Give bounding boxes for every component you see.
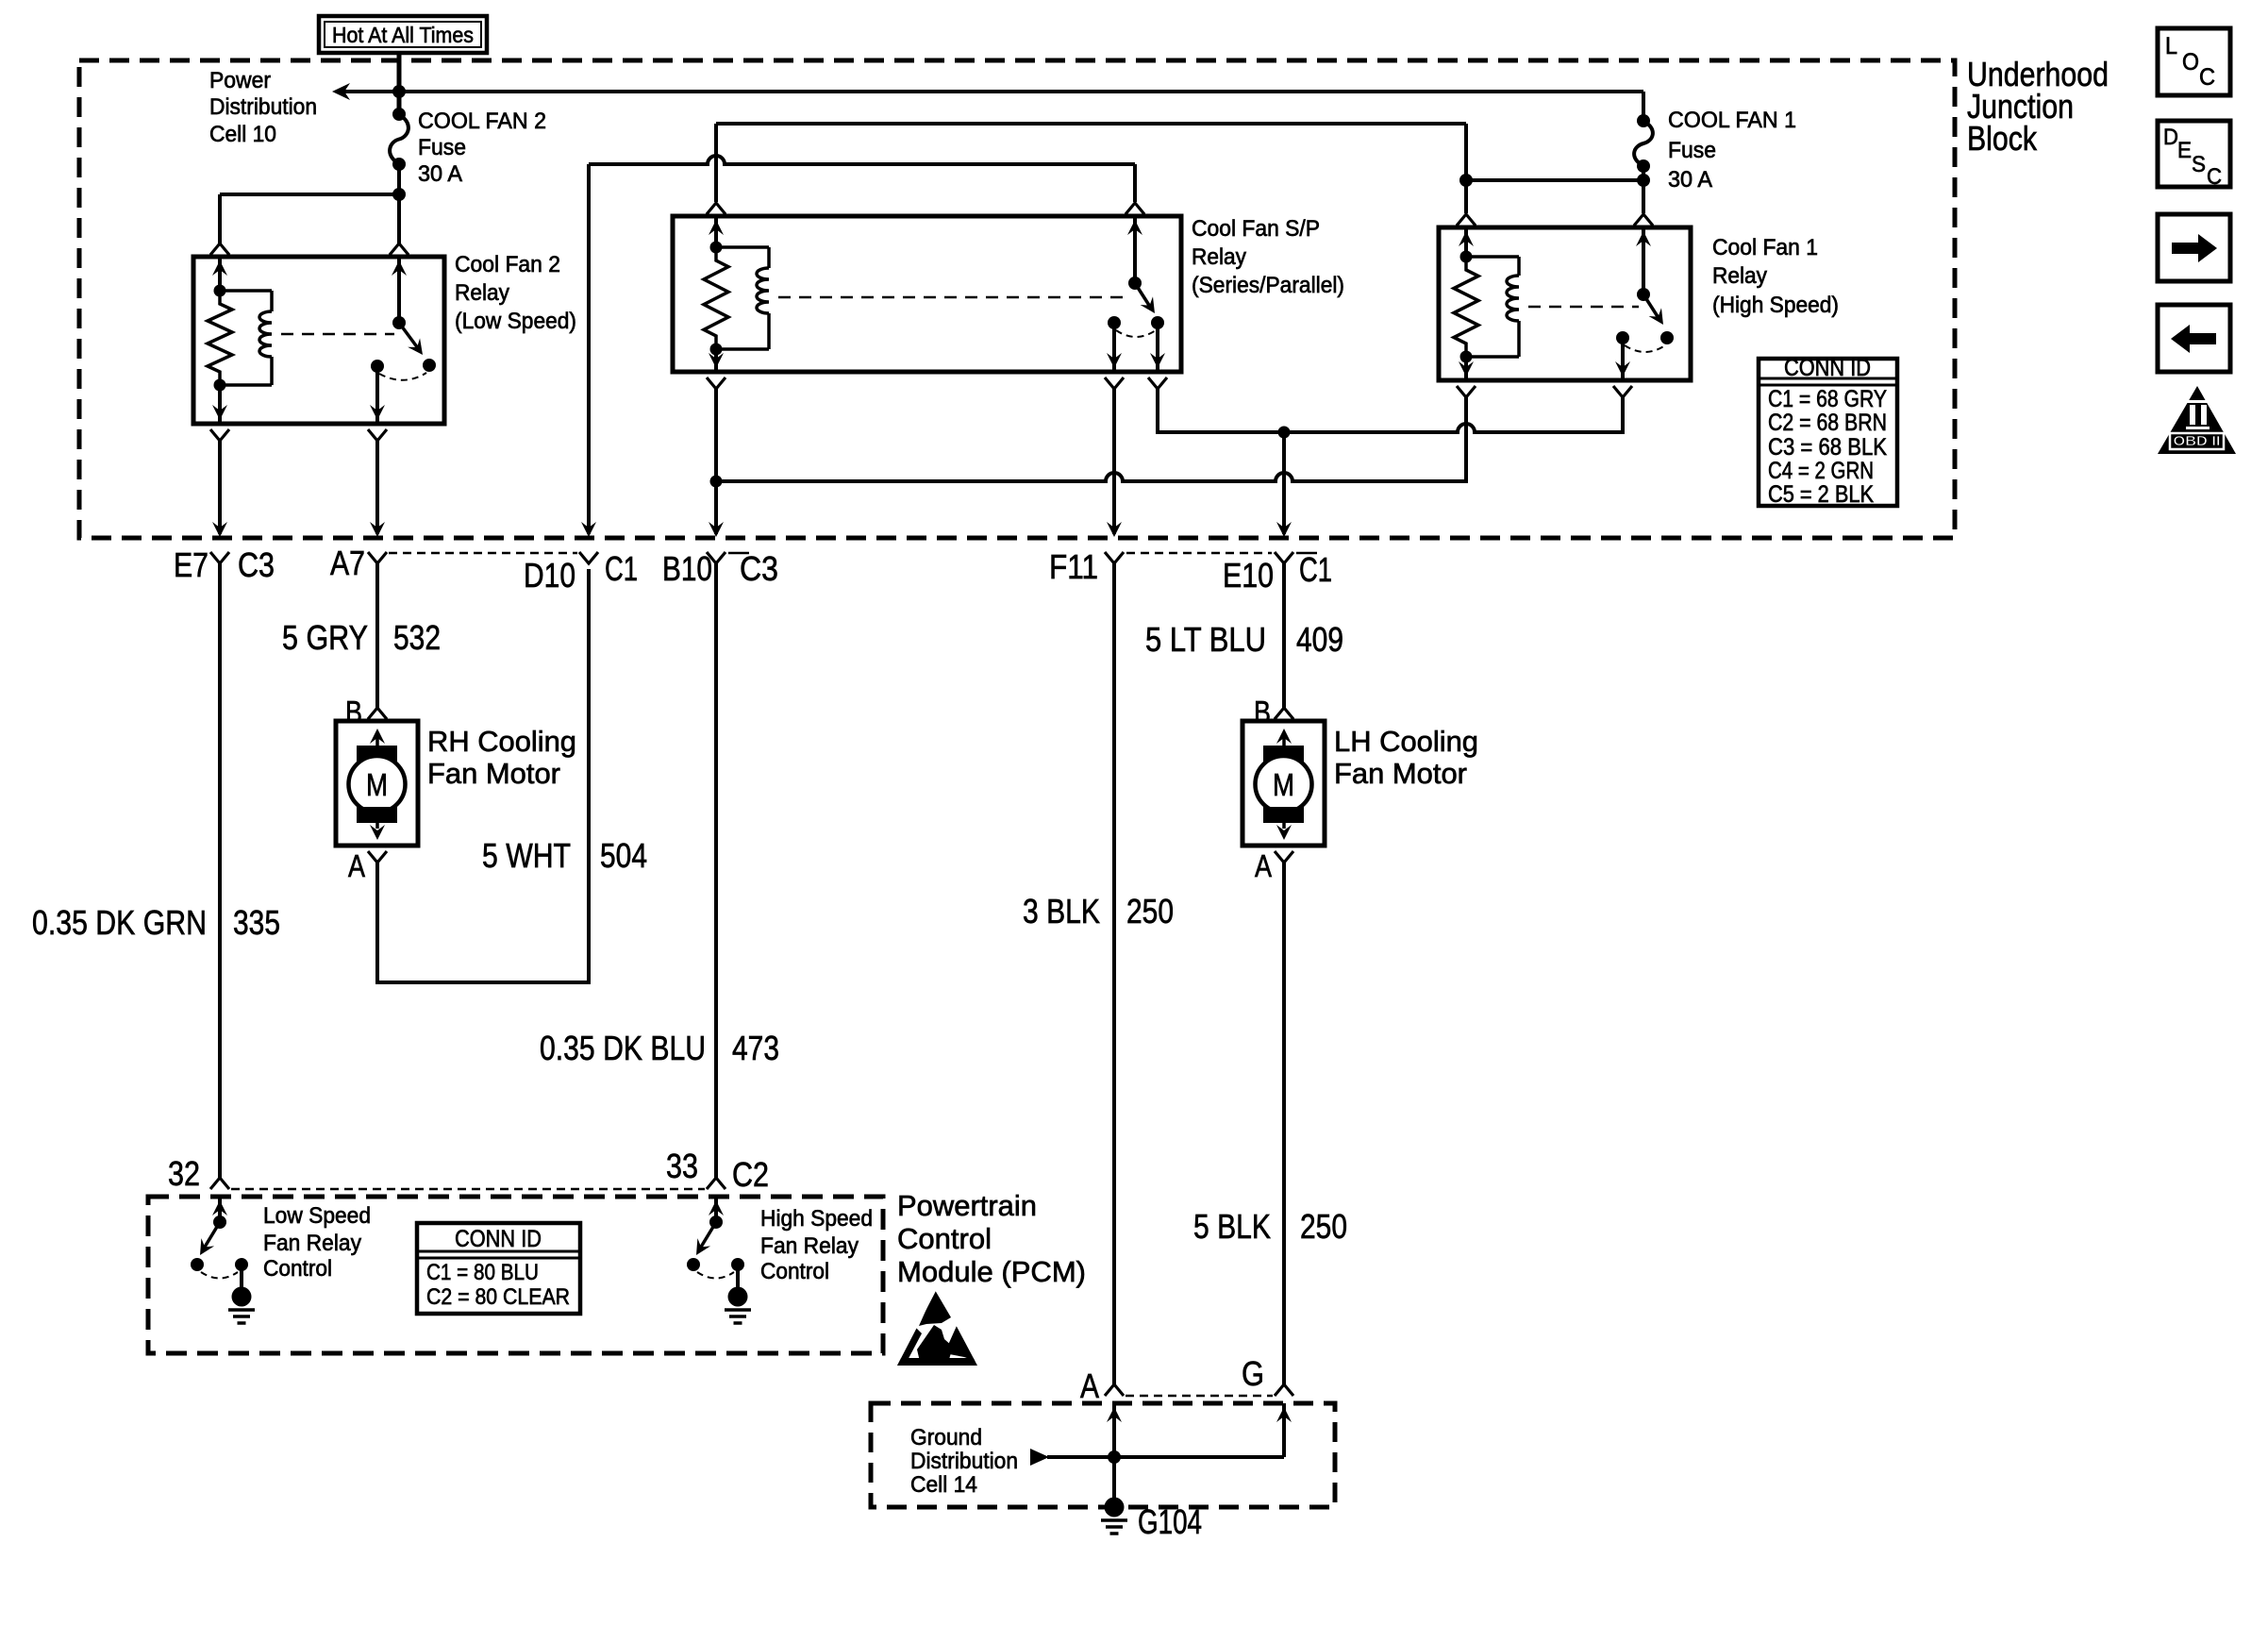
node: K2 arm contact xyxy=(423,359,436,372)
svg-text:F11: F11 xyxy=(1049,547,1098,586)
svg-text:Control: Control xyxy=(897,1222,992,1255)
connector chevron: LH motor A xyxy=(1275,851,1293,863)
wire label: 532 xyxy=(393,618,441,657)
node: ground bus junction xyxy=(1108,1450,1121,1464)
connector chevron: RH motor B xyxy=(368,708,387,719)
node: K3 arm contact xyxy=(1151,316,1164,329)
pin label: E10 xyxy=(1223,556,1274,595)
pin label: A (LH motor) xyxy=(1255,848,1272,883)
dashed arc: high speed contact travel xyxy=(697,1272,734,1279)
pin label: E7 xyxy=(174,545,208,584)
svg-text:Distribution: Distribution xyxy=(209,94,317,120)
svg-text:Low Speed: Low Speed xyxy=(263,1203,371,1229)
connector chevron: PCM pin 33 xyxy=(707,1178,725,1189)
node: fuse 2 output junction xyxy=(392,188,406,201)
connector chevrons below relay K2 xyxy=(210,429,387,441)
wire label: 250 (LH motor leg) xyxy=(1300,1207,1347,1246)
svg-text:CONN ID: CONN ID xyxy=(1784,355,1871,381)
svg-text:250: 250 xyxy=(1126,892,1174,930)
svg-text:335: 335 xyxy=(233,903,280,942)
label: Cool Fan 2 Relay (Low Speed) xyxy=(455,252,576,334)
pin label: B (LH motor) xyxy=(1254,695,1271,729)
label: Low Speed Fan Relay Control xyxy=(263,1203,371,1282)
wire: K2 coil return to E7 xyxy=(212,441,227,537)
ESD sensitive device symbol xyxy=(897,1290,977,1366)
svg-text:A: A xyxy=(348,848,365,883)
dashed arc: low speed contact travel xyxy=(201,1272,238,1279)
pin label: C2 (PCM connector) xyxy=(732,1155,769,1194)
svg-text:Cell 10: Cell 10 xyxy=(209,122,276,147)
pin label: A (ground distribution) xyxy=(1080,1366,1099,1405)
svg-text:5 BLK: 5 BLK xyxy=(1193,1207,1271,1246)
wire: ground pin A to G104 xyxy=(1107,1403,1122,1498)
svg-text:(Series/Parallel): (Series/Parallel) xyxy=(1192,273,1344,298)
label: Cool Fan S/P Relay (Series/Parallel) xyxy=(1192,216,1344,298)
label: G104 xyxy=(1138,1502,1202,1541)
arrow to Power Distribution xyxy=(332,83,350,100)
wire label: 5 BLK xyxy=(1193,1207,1271,1246)
switch: K1 contact arm xyxy=(1637,288,1670,328)
wire: circuit 409 LT BLU (E10 to LH fan motor B) xyxy=(1282,563,1286,708)
fuse: COOL FAN 2 Fuse 30 A xyxy=(390,108,409,171)
svg-text:(High Speed): (High Speed) xyxy=(1712,293,1839,318)
node: CF1 coil feed junction xyxy=(1459,174,1473,187)
wire: D10 riser to S/P relay switch xyxy=(581,156,1135,537)
node: K1 coil top xyxy=(1460,251,1473,263)
wire: power distribution rail xyxy=(343,92,1643,121)
wire: fuse 1 output to CF1 coil / S-P coil feed xyxy=(1466,124,1643,213)
svg-text:E10: E10 xyxy=(1223,556,1274,595)
wire label: 5 LT BLU xyxy=(1145,620,1266,659)
node: fuse 1 output junction xyxy=(1637,174,1650,187)
svg-text:COOL FAN 2: COOL FAN 2 xyxy=(418,109,546,134)
module boundary: Powertrain Control Module xyxy=(148,1197,883,1353)
connector line: PCM 32-33 xyxy=(231,1188,705,1191)
relay K2 coil-side pin (terminal to E7) xyxy=(212,257,227,291)
wire: fuse 1 output xyxy=(1642,166,1645,213)
wire label: 0.35 DK BLU xyxy=(540,1029,706,1067)
wire: circuit 250 BLK (LH motor A to ground G) xyxy=(1282,863,1286,1384)
wire: circuit 335 DK GRN (E7 to PCM pin 32) xyxy=(218,563,222,1178)
svg-text:C3: C3 xyxy=(238,545,275,584)
wire: K3 output contact to box edge (F11 leg) xyxy=(1107,323,1122,372)
svg-text:C1: C1 xyxy=(1299,550,1332,589)
node: K1 output contact xyxy=(1616,331,1629,344)
relay K1 switch input pin xyxy=(1636,227,1651,294)
svg-text:E: E xyxy=(2177,138,2192,163)
wire label: 0.35 DK GRN xyxy=(32,903,207,942)
connector line: F11-E10 xyxy=(1126,552,1272,555)
svg-text:30 A: 30 A xyxy=(1668,167,1712,193)
svg-text:C2 = 80 CLEAR: C2 = 80 CLEAR xyxy=(426,1284,570,1310)
pin label: B10 xyxy=(662,549,712,588)
svg-text:C4 = 2 GRN: C4 = 2 GRN xyxy=(1768,458,1874,484)
arrow: from Ground Distribution cell xyxy=(1030,1449,1049,1466)
node: B10 wire junction with CF1 coil return xyxy=(710,476,723,488)
relay K3 box: Cool Fan S/P Relay xyxy=(673,216,1181,372)
svg-text:Relay: Relay xyxy=(1712,263,1767,289)
connector chevrons below relay K3 xyxy=(707,377,1167,389)
connector chevrons below relay K1 xyxy=(1457,386,1632,397)
wire: ground distribution bus xyxy=(1047,1455,1284,1459)
label: COOL FAN 2 Fuse 30 A xyxy=(418,109,546,187)
svg-text:0.35 DK GRN: 0.35 DK GRN xyxy=(32,903,207,942)
switch: K2 contact arm xyxy=(392,316,428,360)
svg-text:Fan Motor: Fan Motor xyxy=(427,757,560,790)
svg-text:Cell 14: Cell 14 xyxy=(910,1472,977,1498)
wire: circuit 473 DK BLU (B10 to PCM pin 33) xyxy=(714,563,718,1178)
connector line: A-G xyxy=(1126,1395,1273,1398)
svg-text:High Speed: High Speed xyxy=(760,1206,873,1232)
dashed arc: K1 contact travel xyxy=(1625,345,1665,352)
icon: OBD II badge xyxy=(2158,386,2236,454)
label: RH Cooling Fan Motor xyxy=(427,725,576,790)
pin label: 33 xyxy=(666,1147,698,1185)
node: K2 output contact xyxy=(371,360,384,373)
label: COOL FAN 1 Fuse 30 A xyxy=(1668,108,1796,193)
motor M2: LH Cooling Fan Motor xyxy=(1242,721,1325,846)
wire: K3 output to F11 xyxy=(1107,389,1122,537)
svg-text:E7: E7 xyxy=(174,545,208,584)
wire: K2 output to A7 xyxy=(370,441,385,537)
svg-text:C2 = 68 BRN: C2 = 68 BRN xyxy=(1768,410,1887,436)
pin label: C3 (E7 connector) xyxy=(238,545,275,584)
svg-text:S: S xyxy=(2192,152,2206,177)
wire: coil return bus to Cool Fan 1 relay xyxy=(716,397,1466,481)
connector line stub: E10/C1 xyxy=(1296,552,1317,555)
svg-text:Fan Motor: Fan Motor xyxy=(1334,757,1467,790)
svg-text:M: M xyxy=(1273,767,1294,802)
relay K3 coil-side pin xyxy=(709,216,724,247)
label: High Speed Fan Relay Control xyxy=(760,1206,873,1284)
power source tag: Hot At All Times xyxy=(319,16,487,53)
svg-text:C3 = 68 BLK: C3 = 68 BLK xyxy=(1768,434,1887,461)
node: E10 branch junction xyxy=(1278,427,1291,439)
svg-text:Fuse: Fuse xyxy=(418,135,466,160)
svg-text:COOL FAN 1: COOL FAN 1 xyxy=(1668,108,1796,133)
wire label: 5 GRY xyxy=(282,618,368,657)
icon: DESC button xyxy=(2158,121,2230,190)
node: high speed driver contact xyxy=(687,1258,700,1271)
wire label: 5 WHT xyxy=(482,836,571,875)
wire: ground pin G to bus xyxy=(1276,1403,1292,1457)
label: Ground Distribution Cell 14 xyxy=(910,1425,1018,1498)
relay K1 coil-side pin xyxy=(1459,227,1474,257)
wire: K3 arm contact to box edge xyxy=(1150,323,1165,372)
node: K3 coil bottom xyxy=(710,344,723,356)
dashed arc: K3 contact travel xyxy=(1116,330,1156,337)
node: battery feed junction xyxy=(392,85,406,98)
svg-text:3 BLK: 3 BLK xyxy=(1023,892,1100,930)
wire label: 409 xyxy=(1296,620,1343,659)
svg-text:5 LT BLU: 5 LT BLU xyxy=(1145,620,1266,659)
wire label: 250 (F11 leg) xyxy=(1126,892,1174,930)
svg-text:D: D xyxy=(2163,125,2178,150)
svg-text:473: 473 xyxy=(732,1029,779,1067)
node: K2 coil top xyxy=(214,285,226,297)
switch: Low Speed Fan Relay Control driver xyxy=(193,1197,227,1259)
label: Powertrain Control Module (PCM) xyxy=(897,1189,1086,1288)
wire label: 504 xyxy=(600,836,647,875)
svg-text:Distribution: Distribution xyxy=(910,1449,1018,1474)
svg-text:RH Cooling: RH Cooling xyxy=(427,725,576,758)
svg-text:30 A: 30 A xyxy=(418,161,462,187)
pin label: 32 xyxy=(168,1154,200,1193)
svg-text:(Low Speed): (Low Speed) xyxy=(455,309,576,334)
relay K2 switch input pin xyxy=(392,257,407,323)
svg-text:532: 532 xyxy=(393,618,441,657)
wire: circuit 532 GRY (A7 to RH fan motor B) xyxy=(375,563,379,708)
node: K1 arm contact xyxy=(1660,331,1674,344)
svg-text:B: B xyxy=(345,695,362,729)
connector row: junction block bottom chevrons xyxy=(210,552,1293,563)
pin label: C1 (D10 connector) xyxy=(605,549,638,588)
switch: High Speed Fan Relay Control driver xyxy=(690,1197,724,1259)
connector chevron: ground pin G xyxy=(1275,1384,1293,1396)
svg-text:OBD II: OBD II xyxy=(2174,433,2221,449)
pin label: F11 xyxy=(1049,547,1098,586)
pin label: C3 (B10 connector) xyxy=(740,549,778,588)
svg-text:A: A xyxy=(1255,848,1272,883)
node: low speed driver contact xyxy=(191,1258,204,1271)
dashed arc: K2 contact travel xyxy=(379,373,426,380)
svg-text:C1 = 68 GRY: C1 = 68 GRY xyxy=(1768,386,1887,412)
connector chevron: ground pin A xyxy=(1105,1384,1124,1396)
svg-text:D10: D10 xyxy=(524,556,575,595)
svg-text:A7: A7 xyxy=(330,544,365,582)
connector chevrons into relay K1 xyxy=(1457,214,1653,226)
table: CONN ID (PCM connectors) xyxy=(417,1223,580,1314)
svg-text:C1 = 80 BLU: C1 = 80 BLU xyxy=(426,1260,539,1285)
svg-text:C2: C2 xyxy=(732,1155,769,1194)
svg-text:Module (PCM): Module (PCM) xyxy=(897,1255,1086,1288)
fuse: COOL FAN 1 Fuse 30 A xyxy=(1634,114,1653,173)
pin label: G (ground distribution) xyxy=(1242,1354,1264,1393)
svg-text:A: A xyxy=(1080,1366,1099,1405)
underhood junction block boundary xyxy=(79,60,1955,538)
icon: back arrow button xyxy=(2158,305,2230,372)
wire: K2 output to box edge xyxy=(370,366,385,424)
svg-text:LH Cooling: LH Cooling xyxy=(1334,725,1478,758)
wire: branch to relay K2 coil xyxy=(220,194,399,243)
node: K3 output contact xyxy=(1108,316,1121,329)
svg-text:Hot At All Times: Hot At All Times xyxy=(332,23,474,47)
node: high speed ground contact xyxy=(731,1258,744,1271)
pin label: A (RH motor) xyxy=(348,848,365,883)
svg-text:Fuse: Fuse xyxy=(1668,138,1716,163)
resistor: K2 suppression resistor xyxy=(208,291,232,385)
ground: PCM low speed driver ground xyxy=(228,1265,255,1323)
resistor: K3 suppression resistor xyxy=(704,247,728,349)
svg-text:G: G xyxy=(1242,1354,1264,1393)
dashed link: K1 coil to switch xyxy=(1528,306,1639,309)
wire: circuit 250 BLK (F11 to ground distribution A) xyxy=(1112,563,1116,1384)
svg-text:Control: Control xyxy=(760,1259,829,1284)
pin label: C1 (E10 connector) xyxy=(1299,550,1332,589)
dashed link: K3 coil to switch xyxy=(778,296,1130,299)
node: low speed ground contact xyxy=(235,1258,248,1271)
svg-text:Fan Relay: Fan Relay xyxy=(760,1233,859,1259)
svg-text:Fan Relay: Fan Relay xyxy=(263,1231,361,1256)
wire: K3 coil return to B10 xyxy=(709,389,724,537)
relay K2 box: Cool Fan 2 Relay xyxy=(193,257,444,424)
node: K1 coil bottom xyxy=(1460,351,1473,363)
label: Power Distribution Cell 10 xyxy=(209,68,317,147)
wire: S/P coil feed riser xyxy=(716,124,1466,202)
icon: LOC button xyxy=(2158,28,2230,95)
svg-text:Ground: Ground xyxy=(910,1425,982,1450)
svg-text:0.35 DK BLU: 0.35 DK BLU xyxy=(540,1029,706,1067)
pin label: A7 xyxy=(330,544,365,582)
svg-text:C1: C1 xyxy=(605,549,638,588)
coil: K2 relay coil xyxy=(220,291,272,385)
resistor: K1 suppression resistor xyxy=(1454,257,1478,357)
wire label: 3 BLK xyxy=(1023,892,1100,930)
wire label: 335 xyxy=(233,903,280,942)
svg-text:Control: Control xyxy=(263,1256,332,1282)
svg-text:CONN ID: CONN ID xyxy=(455,1226,542,1252)
wire: circuit 504 WHT (RH motor A to D10) xyxy=(377,569,589,982)
dashed link: K2 coil to switch xyxy=(281,333,394,336)
wire: battery feed from Hot At All Times xyxy=(397,53,402,114)
connector chevron: PCM pin 32 xyxy=(210,1178,229,1189)
wire: K1 coil bottom to box edge xyxy=(1459,357,1474,380)
ground: PCM high speed driver ground xyxy=(725,1265,751,1323)
boundary: Ground Distribution Cell 14 xyxy=(871,1403,1335,1507)
pin label: D10 xyxy=(524,556,575,595)
wire: K3 arm contact to CF1 relay output bus xyxy=(1158,389,1623,432)
ground: G104 xyxy=(1101,1498,1127,1534)
svg-text:Cool Fan 2: Cool Fan 2 xyxy=(455,252,560,277)
svg-text:C3: C3 xyxy=(740,549,778,588)
svg-text:5 GRY: 5 GRY xyxy=(282,618,368,657)
icon: forward arrow button xyxy=(2158,214,2230,281)
table: CONN ID (junction block connectors) xyxy=(1759,355,1897,508)
connector chevron: LH motor B xyxy=(1275,708,1293,719)
svg-text:409: 409 xyxy=(1296,620,1343,659)
svg-text:32: 32 xyxy=(168,1154,200,1193)
wire: K1 output contact to box edge xyxy=(1615,338,1630,380)
connector chevrons into relay K2 xyxy=(210,243,409,255)
svg-text:C: C xyxy=(2199,64,2215,91)
label: Cool Fan 1 Relay (High Speed) xyxy=(1712,235,1839,318)
svg-text:O: O xyxy=(2182,49,2199,75)
svg-text:B: B xyxy=(1254,695,1271,729)
svg-text:Powertrain: Powertrain xyxy=(897,1189,1037,1222)
connector line stub: B10/C3 xyxy=(728,552,749,555)
svg-text:504: 504 xyxy=(600,836,647,875)
connector line: A7-D10 xyxy=(389,552,577,555)
svg-text:Relay: Relay xyxy=(1192,244,1246,270)
svg-text:C: C xyxy=(2207,164,2222,190)
relay K3 switch input pin xyxy=(1127,216,1142,283)
svg-text:L: L xyxy=(2165,33,2177,59)
wire: branch to E10 xyxy=(1276,432,1292,537)
svg-text:C5 = 2 BLK: C5 = 2 BLK xyxy=(1768,481,1874,508)
svg-text:G104: G104 xyxy=(1138,1502,1202,1541)
wire label: 473 xyxy=(732,1029,779,1067)
svg-text:Cool Fan 1: Cool Fan 1 xyxy=(1712,235,1818,260)
svg-text:Relay: Relay xyxy=(455,280,509,306)
switch: K3 contact arm xyxy=(1128,277,1161,317)
svg-text:Power: Power xyxy=(209,68,271,93)
svg-text:33: 33 xyxy=(666,1147,698,1185)
pin label: B (RH motor) xyxy=(345,695,362,729)
connector chevrons into relay K3 xyxy=(707,203,1144,214)
label: Underhood Junction Block xyxy=(1967,55,2109,158)
wire: fuse 2 output xyxy=(397,164,401,243)
label: LH Cooling Fan Motor xyxy=(1334,725,1478,790)
svg-text:Cool Fan S/P: Cool Fan S/P xyxy=(1192,216,1320,242)
coil: K3 relay coil xyxy=(716,247,769,349)
coil: K1 relay coil xyxy=(1466,257,1519,357)
svg-text:250: 250 xyxy=(1300,1207,1347,1246)
connector chevron: RH motor A xyxy=(368,851,387,863)
wire: K2 coil bottom to box edge xyxy=(212,385,227,424)
svg-text:5 WHT: 5 WHT xyxy=(482,836,571,875)
relay K1 box: Cool Fan 1 Relay xyxy=(1439,227,1691,380)
wire: K3 coil bottom to box edge xyxy=(709,349,724,372)
node: K3 coil top xyxy=(710,242,723,254)
svg-text:B10: B10 xyxy=(662,549,712,588)
svg-text:Block: Block xyxy=(1967,119,2038,158)
motor M1: RH Cooling Fan Motor xyxy=(336,721,418,846)
node: K2 coil bottom xyxy=(214,379,226,392)
svg-text:M: M xyxy=(366,767,388,802)
